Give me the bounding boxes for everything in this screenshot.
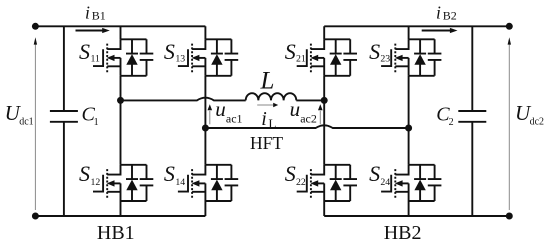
svg-text:i: i [436, 2, 441, 22]
svg-text:u: u [215, 97, 226, 121]
capacitor C1 [50, 26, 99, 216]
transistor S22 (MOSFET with body diode and snubber cap) [285, 161, 357, 201]
wire: HB1 output node a to inductor (hops over S13/S14 leg) [121, 98, 246, 101]
svg-text:i: i [85, 2, 90, 22]
transistor S12 (MOSFET with body diode and snubber cap) [79, 161, 153, 201]
svg-text:22: 22 [296, 177, 306, 188]
wire: HB2 left leg (S21/S22) [323, 26, 325, 216]
node DC1 positive terminal [32, 23, 39, 30]
svg-text:2: 2 [449, 117, 454, 128]
transistor S11 (MOSFET with body diode and snubber cap) [79, 39, 153, 76]
transistor S21 (MOSFET with body diode and snubber cap) [285, 39, 357, 76]
svg-text:ac2: ac2 [300, 111, 317, 125]
current arrow iB2 [422, 2, 458, 33]
svg-text:L: L [260, 68, 275, 95]
svg-text:12: 12 [91, 177, 101, 188]
svg-text:HFT: HFT [250, 133, 283, 153]
wire: HB1 top rail [35, 25, 205, 27]
transistor S13 (MOSFET with body diode and snubber cap) [164, 39, 238, 76]
wire: HB2 bottom rail [324, 215, 509, 217]
svg-text:i: i [261, 108, 267, 130]
node node d (HB2 leg2 midpoint) [405, 125, 412, 132]
voltage arrow uac2 [290, 97, 323, 125]
svg-text:S: S [285, 161, 296, 186]
svg-text:24: 24 [380, 177, 390, 188]
transistor S23 (MOSFET with body diode and snubber cap) [369, 39, 441, 76]
svg-text:21: 21 [296, 54, 306, 65]
current arrow iL [257, 103, 278, 132]
wire: HB1 bottom rail [35, 215, 205, 217]
wire: HB1 right leg (S13/S14) [204, 26, 206, 216]
node DC2 positive terminal [506, 23, 513, 30]
node DC1 negative terminal [32, 213, 39, 220]
svg-text:dc2: dc2 [530, 116, 544, 127]
svg-text:u: u [290, 97, 301, 121]
node node b (HB1 leg2 midpoint) [202, 125, 209, 132]
svg-text:S: S [369, 161, 380, 186]
svg-text:ac1: ac1 [226, 111, 243, 125]
svg-text:S: S [79, 161, 90, 186]
svg-text:dc1: dc1 [19, 116, 33, 127]
inductor L [246, 68, 297, 101]
wire: bottom AC path node b to node d (hops over S21/S22 leg) [205, 125, 408, 128]
svg-text:S: S [285, 39, 296, 64]
node node c (HB2 leg1 midpoint) [321, 97, 328, 104]
voltage arrow uac1 [208, 97, 243, 125]
svg-text:S: S [79, 39, 90, 64]
current arrow iB1 [76, 2, 110, 33]
svg-text:11: 11 [91, 54, 101, 65]
svg-text:HB2: HB2 [384, 222, 422, 242]
transistor S14 (MOSFET with body diode and snubber cap) [164, 161, 238, 201]
svg-text:23: 23 [380, 54, 390, 65]
transistor S24 (MOSFET with body diode and snubber cap) [369, 161, 441, 201]
node node a (HB1 leg1 midpoint) [117, 97, 124, 104]
svg-text:1: 1 [94, 117, 99, 128]
capacitor C2 [436, 26, 486, 216]
svg-text:S: S [369, 39, 380, 64]
wire: HB2 top rail [324, 25, 509, 27]
voltage arrow Udc1 [5, 37, 38, 210]
svg-text:B2: B2 [443, 9, 457, 23]
wire: inductor to HB2 input node c [296, 99, 324, 101]
wire: HB1 left leg (S11/S12) [120, 26, 122, 216]
svg-text:B1: B1 [92, 9, 106, 23]
svg-text:HB1: HB1 [97, 222, 135, 242]
svg-text:S: S [164, 161, 175, 186]
node DC2 negative terminal [506, 213, 513, 220]
voltage arrow Udc2 [508, 37, 544, 210]
svg-text:14: 14 [175, 177, 185, 188]
svg-text:L: L [268, 116, 276, 131]
wire: HB2 right leg (S23/S24) [408, 26, 410, 216]
svg-text:13: 13 [175, 54, 185, 65]
svg-text:S: S [164, 39, 175, 64]
